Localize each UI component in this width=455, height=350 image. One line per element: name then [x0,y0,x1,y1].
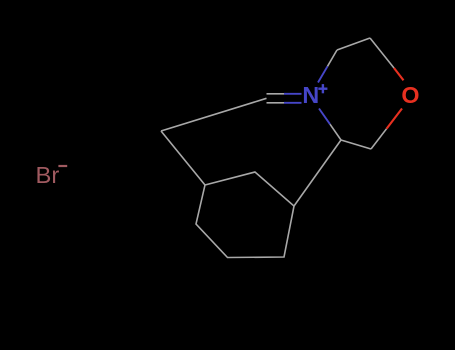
minus sign of Br- [58,165,67,167]
wire: Ct1 to Ct2 [337,38,370,50]
ring: carbocycle V1-V2-V3-V4-V5-V6 [196,172,294,258]
svg-text:Br: Br [36,162,60,188]
wire: Ct2 to O (gray half) [370,38,394,68]
wire: C=N double bond (gray carbon halves) [267,94,285,103]
wire: N to Ct1 (blue half) [318,66,328,82]
plus sign of N+ [318,84,327,93]
wire: Cb1 to N (blue half) [319,109,330,125]
wire: Cb1 to N (gray half) [330,124,341,140]
wire: N to Ct1 (gray half) [328,50,338,66]
svg-text:N: N [302,82,319,108]
wire: bond CH to chain carbon A [161,98,267,131]
wire: C=N double bond (blue nitrogen halves) [284,94,302,103]
wire: O to Cb2 (gray half) [371,129,387,149]
wire: bond V3 to morpholine carbon Cb1 [294,140,341,206]
wire: Cb2 to Cb1 [341,140,371,149]
wire: Ct2 to O (red half) [394,68,404,80]
wire: O to Cb2 (red half) [387,109,403,129]
wire: bond A to ring vertex V1 [161,131,205,185]
svg-text:O: O [401,82,419,108]
